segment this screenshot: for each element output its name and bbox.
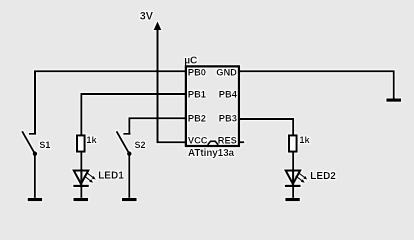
LED1 light arrow 1 xyxy=(87,173,94,178)
svg-text:ATtiny13a: ATtiny13a xyxy=(188,148,235,159)
svg-text:PB2: PB2 xyxy=(188,114,206,124)
S1 switch arm xyxy=(22,131,35,153)
resistor R1 1k xyxy=(77,135,85,151)
svg-text:PB4: PB4 xyxy=(219,90,238,100)
svg-text:PB0: PB0 xyxy=(188,67,206,77)
svg-text:PB1: PB1 xyxy=(188,90,206,100)
S1 junction dot xyxy=(33,151,38,156)
wire R2 to LED2 to ground xyxy=(292,152,294,198)
LED2 light arrow 1 xyxy=(298,173,305,178)
LED1 light arrow 2 xyxy=(84,176,91,181)
svg-text:PB3: PB3 xyxy=(219,114,237,124)
LED2 light arrow 2 xyxy=(296,176,303,181)
power supply 3V arrow xyxy=(154,21,162,30)
LED D2 anode triangle xyxy=(286,171,301,185)
ground (LED1) xyxy=(74,198,89,201)
svg-text:LED1: LED1 xyxy=(98,170,124,181)
svg-text:LED2: LED2 xyxy=(310,171,336,182)
LED2 cathode bar xyxy=(285,185,301,187)
svg-text:1k: 1k xyxy=(86,135,97,145)
wire GND pin to ground xyxy=(239,71,394,98)
ground (LED2) xyxy=(285,198,300,201)
svg-text:µC: µC xyxy=(184,56,198,67)
wire PB1 to R1 xyxy=(81,94,185,135)
S2 junction dot xyxy=(127,151,132,156)
wire 3V rail to VCC xyxy=(158,24,186,143)
svg-text:1k: 1k xyxy=(299,135,310,145)
pin stub RES xyxy=(239,141,244,143)
svg-text:GND: GND xyxy=(216,67,237,77)
switch S2 xyxy=(117,131,132,156)
ground (GND pin) xyxy=(386,99,401,102)
S1 fixed contact xyxy=(29,133,36,135)
wire PB3 to R2 xyxy=(239,119,293,135)
svg-text:RES: RES xyxy=(218,135,237,145)
wire S2 to ground xyxy=(128,154,130,198)
LED1 cathode bar xyxy=(73,185,89,187)
wire S1 to ground xyxy=(34,154,36,198)
S2 fixed contact xyxy=(123,133,130,135)
ground (S2) xyxy=(122,198,137,201)
microcontroller U1 ATtiny13a xyxy=(186,66,239,146)
svg-text:VCC: VCC xyxy=(188,135,208,145)
LED D1 anode triangle xyxy=(74,171,89,185)
resistor R2 1k xyxy=(289,135,297,151)
wire PB2 to S2 xyxy=(129,118,185,134)
S2 switch arm xyxy=(117,131,130,153)
switch S1 xyxy=(22,131,37,156)
ground (S1) xyxy=(28,198,43,201)
svg-text:3V: 3V xyxy=(140,11,154,23)
svg-text:S1: S1 xyxy=(39,140,50,150)
IC orientation notch xyxy=(208,141,219,145)
wire R1 to LED1 to ground xyxy=(80,152,82,198)
svg-text:S2: S2 xyxy=(135,140,146,150)
wire PB0 to S1 xyxy=(35,71,186,134)
